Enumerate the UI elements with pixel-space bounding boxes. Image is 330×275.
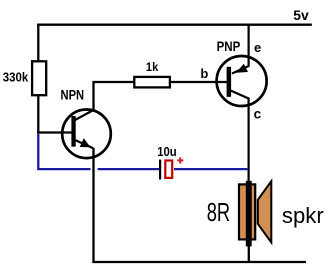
svg-text:NPN: NPN — [61, 88, 85, 103]
wire 1k to PNP base — [171, 81, 227, 83]
resistor R2 1k — [134, 77, 170, 88]
svg-text:1k: 1k — [146, 60, 159, 74]
wire NPN emitter down to ground rail — [92, 148, 94, 263]
wire top 5v rail — [37, 24, 312, 26]
resistor R1 330k — [32, 61, 46, 95]
transistor Q1 NPN — [62, 110, 111, 159]
speaker LS1 magnet body — [239, 184, 255, 239]
svg-text:spkr: spkr — [282, 203, 324, 228]
wire NPN base — [37, 131, 72, 133]
wire blue capacitor to collector node — [174, 168, 248, 170]
wire speaker to bottom rail — [248, 246, 250, 262]
svg-text:8R: 8R — [207, 197, 231, 227]
svg-text:c: c — [254, 107, 262, 122]
wire horizontal to 1k — [92, 81, 134, 83]
wire blue crossing to capacitor — [98, 168, 160, 170]
svg-text:5v: 5v — [293, 7, 309, 23]
label + polarity — [177, 157, 183, 163]
svg-text:330k: 330k — [3, 69, 29, 84]
svg-text:e: e — [254, 40, 261, 55]
wire blue horizontal to crossing — [37, 168, 90, 170]
wire NPN collector up to 1k — [92, 82, 94, 111]
svg-text:PNP: PNP — [217, 38, 241, 54]
speaker coil bar — [246, 181, 252, 247]
wire left vertical from top rail to R1 — [37, 24, 39, 61]
transistor Q2 PNP — [217, 24, 267, 184]
speaker cone — [258, 181, 272, 242]
wire blue from base junction down — [37, 133, 39, 169]
wire from R1 to NPN base junction — [37, 95, 39, 134]
svg-text:b: b — [200, 66, 208, 81]
wire bottom rail — [92, 261, 306, 263]
svg-text:10u: 10u — [157, 145, 177, 159]
capacitor C1 negative plate — [159, 160, 161, 180]
capacitor C1 positive plate — [165, 161, 172, 178]
